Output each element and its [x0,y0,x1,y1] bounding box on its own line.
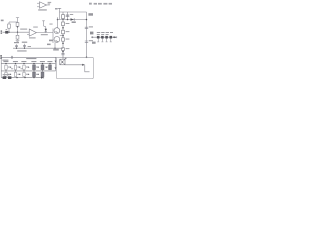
label C2 10n [20,29,27,30]
node n14 [24,77,25,78]
supply tap left [16,18,19,22]
label R9 [47,44,51,46]
wire grid rail2 [1,70,55,72]
resistor Rb4 [33,72,36,76]
wire right bus [86,12,88,57]
wire emitter Q2 down [54,42,56,48]
node n1 [57,19,59,21]
op-amp IC1b [27,29,36,36]
label Bu left of ladder [90,32,93,35]
arrow on grid right bus 1 [55,61,57,63]
label IC1 LM386 [38,9,47,10]
label under ladder left [92,42,96,44]
label gain x4 [48,2,52,4]
resistor R2 [16,22,19,32]
capacitor C1 [5,31,8,34]
wire mid signal [58,19,87,21]
node n9 [17,26,18,27]
resistor Ra6 [49,65,52,70]
resistor R11 [62,22,65,26]
node n13 [16,77,17,78]
label D1 1N4148 [41,34,48,35]
label Bass [88,13,93,16]
resistor Ra2 [14,65,16,69]
resistor Rl4 [110,36,113,39]
emitter arrow Q2 [56,41,58,42]
connector ladder end [114,36,116,38]
resistor Rb2 [14,72,16,76]
resistor R10 [62,15,65,19]
arrow on grid right bus 2 [55,67,57,69]
resistor Ra5 [41,65,44,70]
capacitor C3 [15,44,18,48]
stub s2 [101,39,103,42]
wire emitter node [60,34,63,36]
node bus-box junction [86,56,88,58]
enclosure box [57,57,94,78]
node n11 [16,48,17,49]
input jack J1 [1,31,2,34]
speaker LS1 [60,57,65,65]
label under L2 b [26,58,36,59]
resistor R12 [62,30,65,34]
grid labels row B extra [11,67,48,75]
resistor Rb3 [23,72,25,76]
label C5 [49,23,52,26]
resistor R14 [62,48,65,51]
node extra r3 [33,77,34,78]
label plus speaker [65,58,67,59]
wire collector Q1 [57,17,59,28]
wire input [3,31,30,33]
wire grid right [55,57,57,71]
node n2 [62,19,64,21]
wire base bar [52,29,54,44]
node n5 [62,35,64,37]
transistor Q2 [54,37,60,43]
node n6 [62,43,64,45]
label C4 [22,42,27,43]
resistor R1 [8,22,11,32]
grid nodes rail2 [5,70,43,71]
node speckle between columns row A [10,67,47,68]
wire upper rail left [9,21,18,23]
wire grid rail3 [1,77,44,79]
labels ladder values [97,32,113,35]
capacitor C7 [66,12,69,20]
label C3 [14,42,19,43]
grid nodes rail1 [5,63,50,64]
stub s3 [106,39,108,42]
capacitor C8 [85,27,88,28]
diode D1 [45,27,47,33]
label C8 [89,26,93,27]
wire supply rail [60,11,87,13]
wire L2 ground bus [1,56,56,58]
label C1 plus [6,28,8,31]
grid labels mid [8,67,39,75]
label right of C4 [28,45,31,48]
labels chain values [66,16,70,50]
node n3 [67,19,69,21]
wire grid left [0,57,2,77]
node n8 [8,32,9,33]
node speckle between columns row B [10,74,39,75]
resistor Rl2 [101,36,104,39]
resistor Ra3 [23,65,25,69]
stub s1 [97,39,99,42]
diode D2 [71,18,75,21]
wire bias chain [62,12,64,57]
node n4 [62,27,64,29]
node n10 [17,32,18,33]
label C9 [89,40,93,41]
label under L2 a [2,60,8,61]
diode D3 [41,77,44,79]
resistor Rb5 [41,72,44,76]
label under out node [53,49,59,51]
resistor Rb1 [5,72,7,76]
resistor Rl3 [105,36,108,39]
label above IC1b [33,26,38,29]
emitter arrow Q1 [56,31,58,34]
op-amp IC1a [37,2,50,8]
wire grid rail1 [1,63,55,65]
node out [54,47,56,49]
resistor Ra1 [5,65,7,69]
label under L1 [17,50,26,51]
label supply [55,8,58,10]
label above Rc1 [3,74,10,75]
node ladder end [113,37,114,38]
node bus junction [86,19,88,21]
resistor R13 [62,38,65,41]
capacitor C10 [61,53,64,54]
terminal left ladder [92,37,93,38]
grid labels top [3,61,52,62]
stub s4 [110,39,112,42]
capacitor C5 [42,21,46,27]
transistor Q1 [54,28,60,34]
label IC1b [29,37,36,38]
capacitor C6 [11,56,12,59]
label D2 [72,21,76,23]
wire opamp out [36,32,53,34]
label in [1,20,4,22]
note text top-right [89,3,112,5]
capacitor C4 [23,44,26,48]
wire rail drop left [59,12,61,20]
resistor Rl1 [97,36,100,39]
label C7 [70,13,73,16]
wire arrow inside box [65,64,90,72]
resistor R3 [16,32,19,40]
capacitor C9 [85,41,88,42]
wire ladder [92,36,116,38]
wire L1 feedback [13,47,63,49]
connector left [0,55,2,59]
resistor Rc2 [8,76,11,79]
ground gnd1 [16,40,20,42]
node n12 [24,48,25,49]
node n7 [62,51,64,53]
resistor Rc1 [3,76,7,79]
supply tap +9V [58,8,61,12]
label R8 [49,40,53,42]
resistor Ra4 [33,65,36,70]
